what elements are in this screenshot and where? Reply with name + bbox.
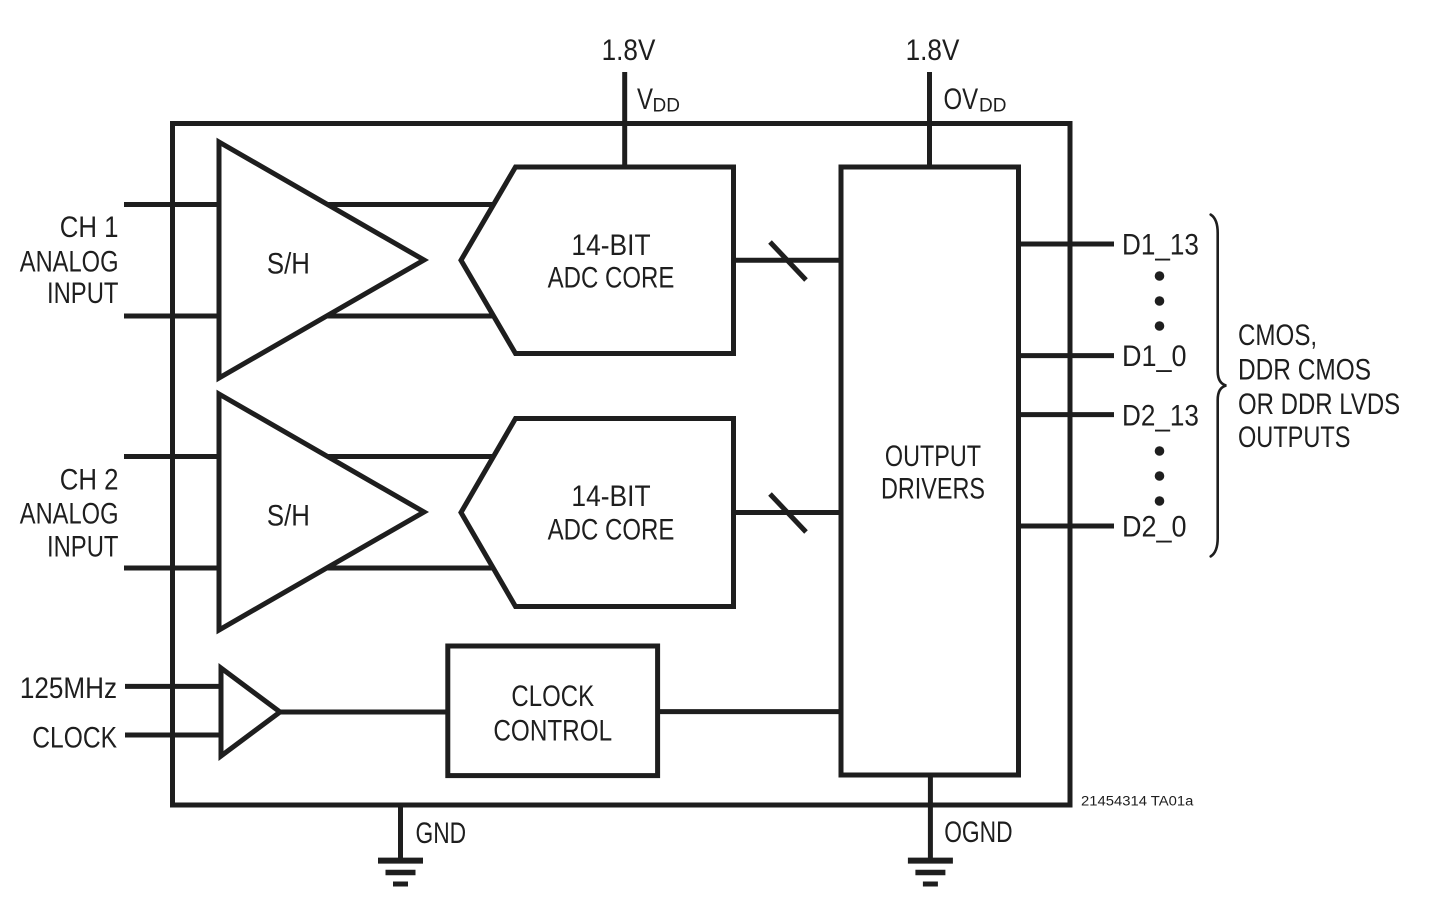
wire output D2_0 bbox=[1019, 524, 1115, 529]
svg-text:ADC CORE: ADC CORE bbox=[548, 512, 675, 546]
op-amp S/H 2 bbox=[219, 394, 424, 630]
svg-text:OV: OV bbox=[944, 81, 979, 115]
ADC core 2 block bbox=[461, 419, 734, 607]
svg-text:INPUT: INPUT bbox=[47, 275, 119, 309]
svg-text:125MHz: 125MHz bbox=[20, 671, 117, 704]
wire clock control to output drivers bbox=[656, 709, 843, 714]
wire S/H1 to ADC1 - bbox=[325, 314, 496, 319]
svg-text:S/H: S/H bbox=[267, 499, 310, 532]
svg-text:DD: DD bbox=[979, 96, 1006, 117]
wire clock buffer to clock control bbox=[278, 710, 450, 715]
node CH 2 ANALOG INPUT bbox=[20, 463, 119, 563]
svg-text:DDR CMOS: DDR CMOS bbox=[1238, 352, 1371, 386]
ellipsis dots D2 bus bbox=[1155, 446, 1165, 506]
svg-text:D2_13: D2_13 bbox=[1122, 399, 1199, 432]
svg-text:1.8V: 1.8V bbox=[906, 33, 960, 66]
svg-text:1.8V: 1.8V bbox=[602, 33, 656, 66]
svg-text:V: V bbox=[637, 81, 653, 115]
node CH 1 ANALOG INPUT bbox=[20, 210, 119, 309]
wire output D1_13 bbox=[1019, 242, 1115, 247]
wire VDD supply stub bbox=[622, 72, 627, 169]
svg-text:CMOS,: CMOS, bbox=[1238, 317, 1317, 351]
clock control block bbox=[448, 646, 658, 776]
wire CH2 analog input + bbox=[124, 454, 221, 459]
svg-text:GND: GND bbox=[416, 816, 467, 850]
ellipsis dots D1 bus bbox=[1155, 271, 1165, 331]
ground symbol OGND bbox=[908, 861, 953, 884]
wire bus ADC2 to output drivers bbox=[734, 510, 842, 515]
svg-text:OUTPUTS: OUTPUTS bbox=[1238, 420, 1350, 453]
wire S/H2 to ADC2 + bbox=[326, 454, 496, 459]
label clock control bbox=[493, 678, 612, 747]
ADC core 1 block bbox=[461, 167, 734, 354]
svg-text:CLOCK: CLOCK bbox=[511, 678, 594, 712]
svg-text:21454314 TA01a: 21454314 TA01a bbox=[1081, 794, 1194, 810]
wire bus ADC1 to output drivers bbox=[734, 258, 842, 263]
wire CH1 analog input + bbox=[124, 202, 221, 207]
svg-text:D1_13: D1_13 bbox=[1122, 228, 1199, 261]
wire CLOCK input bbox=[125, 733, 221, 738]
wire S/H1 to ADC1 + bbox=[326, 202, 496, 207]
svg-text:S/H: S/H bbox=[267, 247, 310, 280]
wire S/H2 to ADC2 - bbox=[325, 566, 496, 571]
svg-text:D2_0: D2_0 bbox=[1122, 510, 1186, 544]
svg-text:CH 2: CH 2 bbox=[60, 463, 119, 496]
svg-text:ADC CORE: ADC CORE bbox=[548, 260, 675, 294]
svg-text:INPUT: INPUT bbox=[47, 529, 119, 563]
svg-text:DRIVERS: DRIVERS bbox=[881, 472, 985, 505]
wire OVDD supply stub bbox=[927, 72, 932, 170]
wire CH1 analog input - bbox=[124, 314, 221, 319]
output grouping brace bbox=[1211, 215, 1227, 557]
wire GND stub bbox=[398, 805, 403, 861]
output drivers block bbox=[841, 167, 1019, 775]
label OVDD pin bbox=[944, 81, 1007, 116]
chip boundary bbox=[173, 124, 1071, 806]
label VDD pin bbox=[637, 81, 680, 116]
svg-text:CH 1: CH 1 bbox=[60, 210, 119, 243]
bus slash 2 bbox=[770, 494, 806, 532]
svg-text:D1_0: D1_0 bbox=[1122, 340, 1186, 374]
label ADC core 2 bbox=[548, 478, 675, 546]
svg-text:CONTROL: CONTROL bbox=[493, 713, 612, 747]
svg-text:DD: DD bbox=[653, 96, 680, 117]
svg-text:OR DDR LVDS: OR DDR LVDS bbox=[1238, 386, 1400, 420]
ground symbol GND bbox=[378, 861, 423, 884]
wire OGND stub bbox=[928, 775, 933, 861]
label ADC core 1 bbox=[548, 227, 675, 294]
label CMOS, DDR CMOS OR DDR LVDS OUTPUTS bbox=[1238, 317, 1400, 453]
svg-text:CLOCK: CLOCK bbox=[32, 720, 117, 754]
svg-text:OUTPUT: OUTPUT bbox=[885, 439, 981, 472]
wire CH2 analog input - bbox=[124, 566, 221, 571]
clock buffer triangle bbox=[221, 668, 280, 756]
svg-text:ANALOG: ANALOG bbox=[20, 497, 119, 530]
svg-text:14-BIT: 14-BIT bbox=[571, 227, 650, 261]
op-amp S/H 1 bbox=[219, 142, 424, 378]
svg-text:14-BIT: 14-BIT bbox=[571, 478, 650, 512]
wire output D1_0 bbox=[1019, 353, 1115, 358]
label output drivers bbox=[881, 439, 985, 505]
svg-text:OGND: OGND bbox=[944, 815, 1012, 849]
wire 125MHz input bbox=[125, 684, 221, 689]
svg-text:ANALOG: ANALOG bbox=[20, 245, 119, 278]
wire output D2_13 bbox=[1019, 412, 1115, 417]
bus slash 1 bbox=[770, 242, 806, 280]
